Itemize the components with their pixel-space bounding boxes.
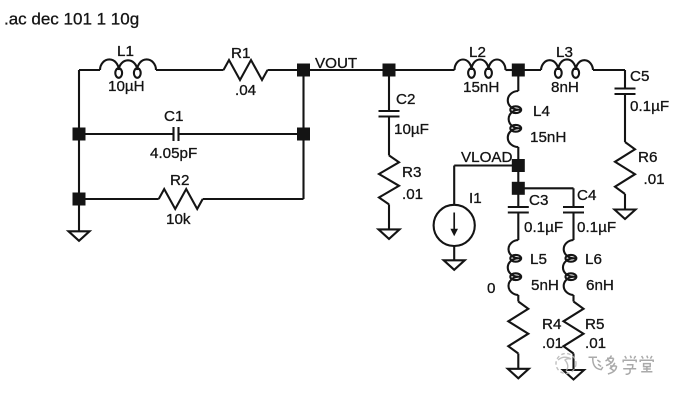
svg-text:L6: L6 [585, 251, 602, 268]
resistor R1 [224, 60, 268, 80]
svg-text:L2: L2 [469, 44, 486, 61]
wire R6 to ground [624, 194, 626, 210]
svg-text:15nH: 15nH [530, 129, 566, 146]
wire C2 node down [388, 70, 390, 111]
svg-text:8nH: 8nH [551, 79, 579, 96]
wire C3 to L5 [517, 213, 519, 241]
svg-text:C4: C4 [577, 187, 596, 204]
wire R4 to ground [517, 354, 519, 369]
svg-text:0.1µF: 0.1µF [577, 219, 616, 236]
svg-text:L1: L1 [117, 43, 134, 60]
node C1 right [297, 128, 310, 141]
svg-text:5nH: 5nH [531, 277, 559, 294]
wire left rail upper [78, 70, 80, 134]
svg-text:R3: R3 [402, 164, 421, 181]
ground R6 [615, 210, 636, 220]
inductor L4 [508, 91, 521, 147]
current source I1 [434, 205, 475, 246]
svg-text:R1: R1 [231, 45, 250, 62]
wire L2 to mid node [506, 69, 519, 71]
svg-text:L3: L3 [556, 44, 573, 61]
capacitor C3 [508, 206, 529, 208]
svg-text:C2: C2 [396, 91, 415, 108]
svg-text:.04: .04 [235, 82, 256, 99]
wire node to C3 [517, 188, 519, 207]
svg-text:C1: C1 [164, 108, 183, 125]
ground left rail [69, 231, 90, 241]
svg-text:4.05pF: 4.05pF [150, 145, 197, 162]
svg-text:.01: .01 [644, 171, 665, 188]
svg-text:R2: R2 [170, 172, 189, 189]
svg-text:10µF: 10µF [394, 121, 429, 138]
wire C2 to R3 [388, 117, 390, 156]
wire VLOAD to I1 [454, 164, 518, 166]
inductor L3 [541, 59, 593, 77]
wire L6 to R5 [572, 295, 574, 302]
wire R1 to VOUT node [268, 69, 304, 71]
node L2-L3-L4 junction [512, 64, 525, 77]
wire L1 to R1 [156, 69, 224, 71]
resistor R3 [379, 155, 399, 204]
svg-text:C3: C3 [529, 192, 548, 209]
capacitor C2 [379, 110, 400, 112]
node VLOAD [512, 159, 525, 172]
capacitor C4 [563, 206, 584, 208]
wire to R2 [79, 198, 159, 200]
ground I1 [444, 260, 465, 270]
wire down to C4 [572, 188, 574, 207]
watermark text 飞多学堂 [589, 356, 654, 375]
wire R5 to ground [572, 354, 574, 371]
node left C1 row [73, 128, 86, 141]
svg-text:10k: 10k [166, 211, 191, 228]
capacitor C5 [615, 87, 636, 89]
wire C4 to L6 [572, 213, 574, 241]
wire L5 to R4 [517, 295, 519, 302]
wire corner down to C5 [624, 70, 626, 89]
svg-text:L4: L4 [533, 103, 550, 120]
ground R5 [563, 370, 584, 380]
wire L4 to VLOAD node [517, 147, 519, 166]
wire left rail to L1 [79, 69, 100, 71]
node left R2 row [73, 193, 86, 206]
svg-text:.01: .01 [402, 186, 423, 203]
svg-text:R5: R5 [585, 316, 604, 333]
svg-text:0.1µF: 0.1µF [524, 219, 563, 236]
svg-text:0.1µF: 0.1µF [630, 98, 669, 115]
wire to left ground [78, 199, 80, 231]
svg-text:6nH: 6nH [586, 277, 614, 294]
wire R2 to riser [203, 198, 304, 200]
inductor L6 [563, 240, 576, 295]
wire down to I1 [453, 166, 455, 205]
svg-text:0: 0 [487, 280, 495, 297]
resistor R5 [564, 302, 584, 354]
wire lower node to C4 [518, 187, 573, 189]
wire down to R2 row [302, 134, 304, 199]
svg-text:15nH: 15nH [463, 79, 499, 96]
svg-text:10µH: 10µH [108, 78, 145, 95]
wire C1 to right node [179, 133, 304, 135]
watermark logo circle [556, 354, 576, 374]
wire VOUT node down [302, 70, 304, 134]
svg-text:.01: .01 [585, 335, 606, 352]
wire I1 to ground [453, 246, 455, 260]
ground R3 [379, 229, 400, 239]
inductor L2 [455, 60, 506, 78]
node C2 tap [383, 64, 396, 77]
wire left rail lower [78, 134, 80, 199]
wire R3 to ground [388, 204, 390, 229]
node C3-C4 tap [512, 182, 525, 195]
wire VOUT node to C2 node [304, 69, 390, 71]
svg-text:R6: R6 [638, 149, 657, 166]
svg-text:.ac dec 101 1 10g: .ac dec 101 1 10g [4, 10, 139, 29]
capacitor C1 [172, 127, 174, 141]
wire C2 node to L2 [389, 69, 455, 71]
ground R4 [508, 369, 529, 379]
svg-text:C5: C5 [630, 68, 649, 85]
wire to C1 [79, 133, 174, 135]
resistor R4 [508, 302, 528, 354]
wire mid node to L3 [518, 69, 541, 71]
svg-text:I1: I1 [469, 190, 482, 207]
wire C5 to R6 [624, 94, 626, 142]
resistor R6 [615, 142, 635, 194]
resistor R2 [159, 189, 203, 209]
wire mid node to L4 [517, 70, 519, 91]
svg-text:VLOAD: VLOAD [461, 149, 513, 166]
wire VLOAD to lower node [517, 166, 519, 189]
svg-text:R4: R4 [542, 316, 561, 333]
svg-text:L5: L5 [530, 251, 547, 268]
wire L3 to C5 corner [593, 69, 625, 71]
svg-text:.01: .01 [542, 335, 563, 352]
node VOUT junction [297, 64, 310, 77]
inductor L5 [508, 240, 521, 295]
inductor L1 [100, 59, 156, 77]
